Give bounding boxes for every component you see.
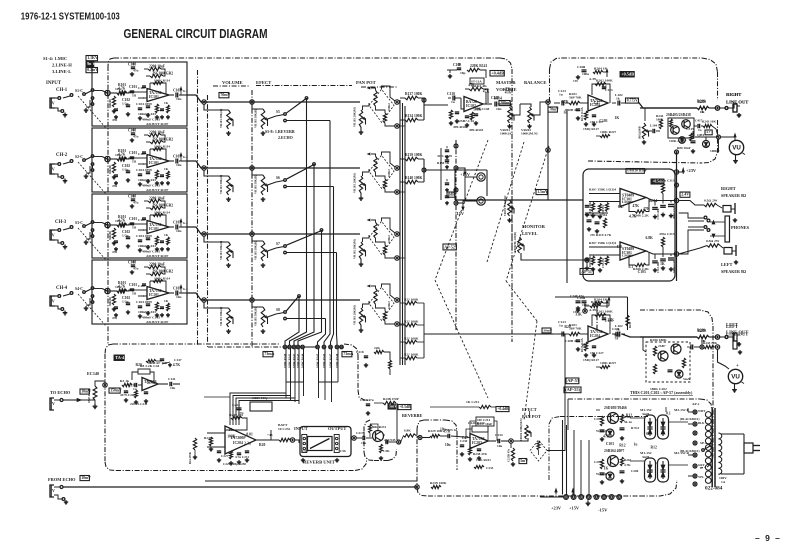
svg-text:1K: 1K xyxy=(164,101,169,105)
svg-text:VR101 50K(A): VR101 50K(A) xyxy=(219,175,223,194)
svg-text:EC140: EC140 xyxy=(87,371,99,376)
svg-text:47u: 47u xyxy=(112,184,117,188)
svg-text:GENERAL CIRCUIT DIAGRAM: GENERAL CIRCUIT DIAGRAM xyxy=(124,26,268,41)
svg-text:1000u C317: 1000u C317 xyxy=(673,205,676,219)
svg-text:V: V xyxy=(52,233,55,238)
svg-text:2SC1000GR2: 2SC1000GR2 xyxy=(152,72,173,76)
svg-text:56P 70K: 56P 70K xyxy=(569,327,582,331)
svg-text:C141: C141 xyxy=(168,377,176,381)
svg-text:22K: 22K xyxy=(147,381,154,385)
svg-text:SPEAKER 8Ω: SPEAKER 8Ω xyxy=(721,269,747,274)
svg-text:1u: 1u xyxy=(559,93,563,97)
svg-text:73mA: 73mA xyxy=(343,351,353,356)
svg-text:1/2p: 1/2p xyxy=(122,102,129,106)
svg-text:0.01: 0.01 xyxy=(246,433,253,437)
svg-text:100K2: 100K2 xyxy=(388,235,391,243)
svg-text:2200 10uF: 2200 10uF xyxy=(149,131,166,135)
svg-text:C108: C108 xyxy=(128,129,136,133)
svg-text:C234: C234 xyxy=(495,433,503,437)
svg-text:10mV: 10mV xyxy=(81,476,91,480)
svg-text:100K R114: 100K R114 xyxy=(154,211,170,215)
svg-text:R24 470K: R24 470K xyxy=(189,451,192,464)
svg-text:220K R141: 220K R141 xyxy=(470,64,487,68)
svg-text:2200 10uF: 2200 10uF xyxy=(149,263,166,267)
svg-text:VR105 50K(B): VR105 50K(B) xyxy=(254,241,258,260)
svg-text:VU: VU xyxy=(732,145,741,152)
svg-text:– 9 –: – 9 – xyxy=(755,533,781,543)
svg-text:C218: C218 xyxy=(356,350,364,354)
svg-text:0.775V: 0.775V xyxy=(627,99,638,103)
svg-text:470u C313: 470u C313 xyxy=(659,232,675,236)
svg-text:1u: 1u xyxy=(563,111,567,115)
svg-text:160 C127: 160 C127 xyxy=(590,351,604,355)
svg-text:S6: S6 xyxy=(276,176,280,180)
svg-text:R20: R20 xyxy=(259,443,265,447)
svg-text:50K(B): 50K(B) xyxy=(108,297,112,306)
svg-text:S7: S7 xyxy=(276,242,280,246)
svg-text:VOLUME: VOLUME xyxy=(222,80,243,85)
svg-text:1/2p: 1/2p xyxy=(122,168,129,172)
svg-text:10K: 10K xyxy=(115,153,122,157)
svg-text:IC101: IC101 xyxy=(149,227,159,231)
svg-text:3201-C149: 3201-C149 xyxy=(437,154,452,158)
svg-text:120K R227: 120K R227 xyxy=(600,361,616,365)
svg-text:(BLACKBOX): (BLACKBOX) xyxy=(680,417,699,421)
svg-text:30mV: 30mV xyxy=(543,328,552,332)
svg-text:6-2: 6-2 xyxy=(183,89,188,93)
svg-text:47K: 47K xyxy=(483,89,490,93)
svg-text:MASTER: MASTER xyxy=(496,80,516,85)
svg-text:C104 4599: C104 4599 xyxy=(136,300,152,304)
svg-text:C101: C101 xyxy=(129,151,137,155)
svg-text:4.7K: 4.7K xyxy=(561,100,569,104)
svg-text:9mV: 9mV xyxy=(87,62,95,66)
svg-text:1u: 1u xyxy=(634,443,638,447)
svg-text:CH-3: CH-3 xyxy=(55,220,67,225)
svg-text:1000u C317: 1000u C317 xyxy=(673,259,676,273)
svg-text:A-99: A-99 xyxy=(589,77,596,81)
svg-text:10 C232: 10 C232 xyxy=(278,427,290,431)
svg-text:1A: 1A xyxy=(721,480,726,484)
svg-text:2SB405/2SD438: 2SB405/2SD438 xyxy=(666,113,691,117)
svg-text:BLK: BLK xyxy=(698,421,705,425)
svg-text:SPEAKER 8Ω: SPEAKER 8Ω xyxy=(721,193,747,198)
svg-text:C20?: C20? xyxy=(594,460,602,464)
svg-text:IC101: IC101 xyxy=(149,293,159,297)
svg-text:VR204 100K(M.N): VR204 100K(M.N) xyxy=(520,418,523,441)
svg-text:22K: 22K xyxy=(374,346,380,350)
svg-text:1u: 1u xyxy=(132,160,136,164)
svg-text:V: V xyxy=(52,401,55,406)
svg-text:R30 150K: R30 150K xyxy=(589,255,592,267)
svg-text:C104 4599: C104 4599 xyxy=(136,102,152,106)
svg-text:IC101: IC101 xyxy=(149,95,159,99)
svg-text:0dB: 0dB xyxy=(448,193,455,197)
svg-text:4.7K: 4.7K xyxy=(624,463,631,467)
svg-text:1K: 1K xyxy=(164,299,169,303)
svg-text:100K(A): 100K(A) xyxy=(500,132,513,136)
svg-text:S1-C: S1-C xyxy=(75,89,83,93)
svg-text:REVERB UNIT: REVERB UNIT xyxy=(303,460,335,465)
svg-text:1K: 1K xyxy=(604,466,609,470)
svg-text:1u: 1u xyxy=(132,226,136,230)
svg-text:ADJUST R107: ADJUST R107 xyxy=(146,320,169,324)
svg-text:C240: C240 xyxy=(612,327,620,331)
svg-text:ADJUST R107: ADJUST R107 xyxy=(146,254,169,258)
svg-text:1k: 1k xyxy=(616,97,620,101)
svg-text:+0.4dB: +0.4dB xyxy=(491,70,504,75)
svg-text:R23? 10uF: R23? 10uF xyxy=(477,422,492,426)
svg-text:C227: C227 xyxy=(221,454,229,458)
svg-text:VR103 20K(M): VR103 20K(M) xyxy=(353,239,357,259)
svg-text:C47: C47 xyxy=(462,436,468,440)
svg-text:50K(B): 50K(B) xyxy=(108,231,112,240)
svg-text:TA-4: TA-4 xyxy=(115,355,125,360)
svg-text:C110: C110 xyxy=(447,92,455,96)
svg-text:+23V: +23V xyxy=(551,506,562,511)
svg-text:5mA: 5mA xyxy=(683,377,691,381)
svg-text:+23V: +23V xyxy=(686,168,697,173)
svg-text:220 79-C241: 220 79-C241 xyxy=(130,402,148,406)
svg-text:C217: C217 xyxy=(356,431,364,435)
svg-text:10u: 10u xyxy=(445,443,451,447)
svg-text:TRAVEL 100(B): TRAVEL 100(B) xyxy=(514,232,517,252)
svg-text:S1-4: 1.MIC: S1-4: 1.MIC xyxy=(43,56,67,61)
svg-text:WZ140: WZ140 xyxy=(596,472,607,476)
svg-text:R30? 150K 1/(13)4: R30? 150K 1/(13)4 xyxy=(589,241,616,245)
svg-text:4.7u C231: 4.7u C231 xyxy=(235,455,249,459)
svg-text:IC204: IC204 xyxy=(590,334,600,338)
svg-text:C30 47u: C30 47u xyxy=(602,258,605,268)
svg-text:0.1: 0.1 xyxy=(602,85,607,89)
svg-text:10u: 10u xyxy=(361,441,366,445)
svg-text:IC203: IC203 xyxy=(472,441,482,445)
svg-text:470: 470 xyxy=(582,344,588,348)
svg-text:C101: C101 xyxy=(129,217,137,221)
svg-text:R209: R209 xyxy=(697,329,705,333)
svg-text:R114: R114 xyxy=(494,96,502,100)
svg-text:AP-52: AP-52 xyxy=(444,244,455,249)
svg-text:VR103 20K(M): VR103 20K(M) xyxy=(353,107,357,127)
svg-text:R20: R20 xyxy=(136,363,142,367)
svg-text:1K: 1K xyxy=(660,262,665,266)
svg-text:6-2: 6-2 xyxy=(183,287,188,291)
svg-text:560: 560 xyxy=(614,334,620,338)
svg-text:R12: R12 xyxy=(651,446,657,450)
svg-text:C101: C101 xyxy=(129,283,137,287)
svg-text:RIGHT: RIGHT xyxy=(726,92,741,97)
svg-text:47uF 474(B): 47uF 474(B) xyxy=(88,388,91,403)
svg-text:VR105 50K(B): VR105 50K(B) xyxy=(254,307,258,326)
svg-text:C229 100p R250: C229 100p R250 xyxy=(223,462,246,466)
svg-text:VR105 50K(B): VR105 50K(B) xyxy=(254,175,258,194)
svg-text:2.4V: 2.4V xyxy=(681,192,689,197)
svg-text:C10?: C10? xyxy=(138,218,146,222)
svg-text:100K2: 100K2 xyxy=(388,103,391,111)
svg-text:150mV: 150mV xyxy=(110,389,122,393)
svg-text:10u: 10u xyxy=(497,444,502,448)
svg-text:R2? 100K: R2? 100K xyxy=(404,298,419,302)
svg-text:A-99: A-99 xyxy=(589,308,596,312)
svg-text:470: 470 xyxy=(617,245,623,249)
svg-text:+: + xyxy=(736,364,739,369)
svg-text:2200 10uF: 2200 10uF xyxy=(149,197,166,201)
svg-text:3.LINE-L: 3.LINE-L xyxy=(52,69,71,74)
svg-text:C10: C10 xyxy=(128,383,134,387)
svg-text:S5: S5 xyxy=(276,110,280,114)
svg-text:1.5K: 1.5K xyxy=(383,449,390,453)
svg-text:1u: 1u xyxy=(132,94,136,98)
svg-text:100K: 100K xyxy=(473,107,481,111)
svg-text:100K: 100K xyxy=(227,435,235,439)
svg-text:2SC1000GR2: 2SC1000GR2 xyxy=(152,204,173,208)
svg-text:V: V xyxy=(52,299,55,304)
svg-text:AP-1: AP-1 xyxy=(692,402,700,406)
svg-text:R30 150K: R30 150K xyxy=(589,201,592,213)
svg-text:LM380: LM380 xyxy=(622,254,633,258)
svg-text:C108: C108 xyxy=(128,63,136,67)
svg-text:1K: 1K xyxy=(615,116,620,120)
svg-text:R80 10uF: R80 10uF xyxy=(677,146,691,150)
svg-text:R150 1K: R150 1K xyxy=(437,161,450,165)
svg-text:10K: 10K xyxy=(115,219,122,223)
svg-text:2.LINE-H: 2.LINE-H xyxy=(52,63,72,68)
svg-text:R243 10K: R243 10K xyxy=(703,341,717,345)
svg-text:C103: C103 xyxy=(599,119,607,123)
svg-text:4.7K: 4.7K xyxy=(173,363,181,367)
svg-text:C108: C108 xyxy=(128,261,136,265)
svg-text:56P 70K: 56P 70K xyxy=(569,96,582,100)
svg-text:R12: R12 xyxy=(619,443,625,447)
svg-text:R202 100K: R202 100K xyxy=(596,79,613,83)
svg-text:1K C212: 1K C212 xyxy=(466,400,479,404)
svg-text:2W R319 4.7K: 2W R319 4.7K xyxy=(590,233,612,237)
svg-text:2SD188/T0466: 2SD188/T0466 xyxy=(604,406,627,410)
svg-text:1MQ R127: 1MQ R127 xyxy=(583,358,599,362)
svg-text:5mV: 5mV xyxy=(389,405,397,409)
svg-text:VR105 50K(B): VR105 50K(B) xyxy=(254,109,258,128)
svg-text:10u: 10u xyxy=(229,428,235,432)
svg-text:VR101 50K(A): VR101 50K(A) xyxy=(219,109,223,128)
svg-text:EFECT: EFECT xyxy=(256,80,271,85)
svg-text:C221 100p: C221 100p xyxy=(252,396,268,400)
svg-text:FROM ECHO: FROM ECHO xyxy=(48,477,76,482)
svg-text:LEFT: LEFT xyxy=(721,262,733,267)
svg-text:56-1u: 56-1u xyxy=(624,420,632,424)
svg-text:C103: C103 xyxy=(606,442,614,446)
svg-text:0.1: 0.1 xyxy=(629,265,634,269)
svg-text:+0.4dB: +0.4dB xyxy=(497,407,509,411)
svg-text:L104 1: L104 1 xyxy=(650,124,660,128)
svg-text:VR103 20K(M): VR103 20K(M) xyxy=(353,173,357,193)
svg-text:6.8K: 6.8K xyxy=(646,236,654,240)
svg-text:2200 10uF: 2200 10uF xyxy=(149,65,166,69)
svg-text:4.7K: 4.7K xyxy=(629,215,637,219)
svg-text:WZ061: WZ061 xyxy=(596,429,607,433)
svg-text:4379-C240: 4379-C240 xyxy=(120,393,135,397)
svg-text:VR101 50K(A): VR101 50K(A) xyxy=(219,307,223,326)
svg-text:THIS C201,C202 : AP-57 (assemb: THIS C201,C202 : AP-57 (assembly) xyxy=(630,390,693,395)
svg-text:+0.5dB: +0.5dB xyxy=(621,71,634,76)
svg-text:LINE OUT: LINE OUT xyxy=(726,330,748,335)
svg-text:C21F 47u: C21F 47u xyxy=(360,398,374,402)
svg-text:BALANCE: BALANCE xyxy=(524,80,546,85)
svg-text:10u: 10u xyxy=(176,97,182,101)
svg-text:10u: 10u xyxy=(176,295,182,299)
svg-text:V: V xyxy=(52,488,55,493)
svg-text:R2? 100K: R2? 100K xyxy=(404,320,419,324)
svg-text:AP-53: AP-53 xyxy=(567,378,580,383)
svg-text:50K(B): 50K(B) xyxy=(108,165,112,174)
svg-text:47K: 47K xyxy=(505,90,512,94)
svg-text:C56: C56 xyxy=(340,449,346,453)
svg-text:(AP-55): (AP-55) xyxy=(565,387,580,392)
svg-text:3mH: 3mH xyxy=(642,412,649,416)
svg-text:470: 470 xyxy=(643,207,649,211)
svg-text:C108: C108 xyxy=(128,195,136,199)
svg-text:100K(M.N): 100K(M.N) xyxy=(521,132,538,136)
svg-text:C10?: C10? xyxy=(138,86,146,90)
svg-text:C10?: C10? xyxy=(138,152,146,156)
svg-text:IC204: IC204 xyxy=(233,441,243,445)
svg-text:1976-12-1 SYSTEM100-103: 1976-12-1 SYSTEM100-103 xyxy=(21,11,120,22)
svg-text:70mV: 70mV xyxy=(549,108,559,112)
svg-text:M2-152 R: M2-152 R xyxy=(674,408,689,412)
svg-text:C315 40u: C315 40u xyxy=(657,208,660,219)
svg-text:VR203 10K(B)x2: VR203 10K(B)x2 xyxy=(504,195,507,216)
svg-text:1.5K R241: 1.5K R241 xyxy=(476,458,491,462)
svg-text:50K(B): 50K(B) xyxy=(108,99,112,108)
svg-text:100K R114: 100K R114 xyxy=(154,79,170,83)
svg-text:R125 1L0A: R125 1L0A xyxy=(581,107,584,121)
svg-text:C235B 47u: C235B 47u xyxy=(508,448,511,462)
svg-text:47K: 47K xyxy=(633,204,640,208)
svg-text:PAN POT: PAN POT xyxy=(522,414,541,419)
svg-text:+0.5dB: +0.5dB xyxy=(399,405,411,409)
svg-text:6-2: 6-2 xyxy=(183,155,188,159)
svg-text:INPUT: INPUT xyxy=(46,81,62,86)
svg-text:LINE OUT: LINE OUT xyxy=(726,100,748,105)
svg-text:73mA: 73mA xyxy=(264,351,274,356)
svg-text:GRY: GRY xyxy=(698,463,705,467)
svg-text:1u: 1u xyxy=(559,324,563,328)
svg-text:C20?: C20? xyxy=(594,417,602,421)
svg-text:UM150 R50F: UM150 R50F xyxy=(627,169,647,173)
svg-text:5mV: 5mV xyxy=(520,459,528,463)
svg-text:V: V xyxy=(52,101,55,106)
svg-text:470: 470 xyxy=(468,83,474,87)
svg-text:1.1KV: 1.1KV xyxy=(87,56,98,60)
svg-text:2SC1000GR2: 2SC1000GR2 xyxy=(152,138,173,142)
svg-text:PHONES: PHONES xyxy=(731,225,750,230)
svg-text:180K: 180K xyxy=(656,118,664,122)
svg-text:R20: R20 xyxy=(564,325,570,329)
svg-text:S2-C: S2-C xyxy=(75,155,83,159)
svg-text:C101: C101 xyxy=(129,85,137,89)
svg-text:100u: 100u xyxy=(582,72,589,76)
svg-text:10u: 10u xyxy=(496,107,502,111)
svg-text:100K R114: 100K R114 xyxy=(154,145,170,149)
svg-text:C320 10u R316: C320 10u R316 xyxy=(585,213,607,217)
svg-text:PAN POT: PAN POT xyxy=(356,80,376,85)
svg-text:-15V: -15V xyxy=(598,508,608,513)
svg-text:47u: 47u xyxy=(133,267,139,271)
svg-text:+45: +45 xyxy=(267,433,273,437)
svg-text:0.5Ω 2W: 0.5Ω 2W xyxy=(706,239,720,243)
svg-text:47u: 47u xyxy=(133,201,139,205)
svg-text:1u: 1u xyxy=(451,100,455,104)
svg-text:C104 4599: C104 4599 xyxy=(136,234,152,238)
svg-text:R204 1K: R204 1K xyxy=(594,67,607,71)
svg-text:0.5Ω 2W: 0.5Ω 2W xyxy=(704,199,718,203)
svg-text:70mV: 70mV xyxy=(220,92,230,97)
svg-text:C233: C233 xyxy=(486,466,494,470)
svg-text:LEVEL: LEVEL xyxy=(522,231,538,236)
svg-text:2.2u: 2.2u xyxy=(244,442,251,446)
svg-text:1MQ R127: 1MQ R127 xyxy=(583,127,599,131)
svg-text:1.5mV: 1.5mV xyxy=(537,190,548,194)
svg-text:0.1: 0.1 xyxy=(666,411,671,415)
svg-text:ADJUST R107: ADJUST R107 xyxy=(146,122,169,126)
svg-text:R24B 470P: R24B 470P xyxy=(383,397,399,401)
svg-text:S3-C: S3-C xyxy=(75,221,83,225)
svg-text:R137 100K: R137 100K xyxy=(405,92,422,96)
svg-text:C103: C103 xyxy=(638,270,646,274)
svg-text:C10?: C10? xyxy=(138,284,146,288)
svg-text:2.ECHO: 2.ECHO xyxy=(278,135,293,140)
svg-text:REVERBE: REVERBE xyxy=(402,413,422,418)
svg-text:R202 100K: R202 100K xyxy=(596,310,613,314)
svg-text:R206 180K: R206 180K xyxy=(650,338,667,342)
svg-text:QH1: QH1 xyxy=(697,133,704,137)
svg-text:R209: R209 xyxy=(697,100,705,104)
svg-text:WHT: WHT xyxy=(698,409,705,413)
svg-text:S8: S8 xyxy=(276,308,280,312)
svg-text:47u: 47u xyxy=(133,135,139,139)
svg-text:V: V xyxy=(52,167,55,172)
svg-text:C206: C206 xyxy=(631,469,639,473)
svg-text:0.2mV: 0.2mV xyxy=(87,68,98,72)
svg-text:R134 100K: R134 100K xyxy=(405,114,422,118)
svg-text:YEL: YEL xyxy=(698,475,704,479)
svg-text:R30? 150K 1/(13)4: R30? 150K 1/(13)4 xyxy=(589,188,616,192)
svg-text:6-2: 6-2 xyxy=(183,221,188,225)
svg-text:R114: R114 xyxy=(649,199,657,203)
svg-text:4.7: 4.7 xyxy=(706,130,711,134)
svg-text:IC101: IC101 xyxy=(149,161,159,165)
svg-text:C47: C47 xyxy=(618,205,624,209)
svg-text:MONITOR: MONITOR xyxy=(522,224,546,229)
svg-text:R?0.5: R?0.5 xyxy=(631,426,640,430)
svg-text:1K: 1K xyxy=(700,110,705,114)
svg-text:S5-8: 1.REVERB: S5-8: 1.REVERB xyxy=(265,129,295,134)
svg-text:R139 100K: R139 100K xyxy=(405,153,422,157)
svg-text:R204 1K: R204 1K xyxy=(594,298,607,302)
svg-text:CH-1: CH-1 xyxy=(56,88,68,93)
svg-text:1u: 1u xyxy=(132,292,136,296)
svg-text:CH-2: CH-2 xyxy=(56,153,68,158)
svg-text:499-R340: 499-R340 xyxy=(453,125,468,129)
svg-text:LEFT: LEFT xyxy=(726,322,738,327)
svg-text:18p: 18p xyxy=(460,71,466,75)
svg-text:47u: 47u xyxy=(112,250,117,254)
svg-text:1/2p: 1/2p xyxy=(122,300,129,304)
svg-text:R2? 100K: R2? 100K xyxy=(404,353,419,357)
svg-text:100K2: 100K2 xyxy=(388,169,391,177)
svg-text:+15V: +15V xyxy=(569,506,580,511)
svg-text:10u: 10u xyxy=(176,163,182,167)
svg-text:499-R343: 499-R343 xyxy=(469,128,484,132)
